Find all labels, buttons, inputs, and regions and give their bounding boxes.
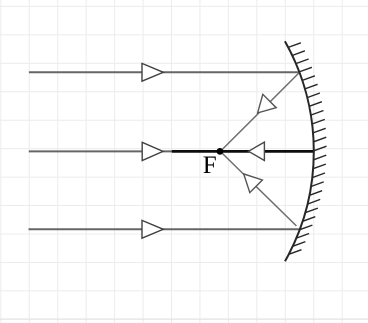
arrowhead on incident ray 2	[142, 142, 163, 160]
mirror hatching (back of mirror)	[288, 43, 326, 255]
arrowhead on upper reflected ray (pointing down-left toward F)	[258, 94, 277, 113]
arrowhead on incident ray 3	[142, 220, 163, 238]
incident ray 2 (middle ray along axis)	[29, 150, 220, 152]
principal axis / reflected axial ray (black)	[172, 150, 314, 153]
reflected ray upper (from mirror top to focal point F)	[220, 73, 299, 152]
concave mirror arc	[285, 41, 314, 261]
incident ray 3 (bottom parallel ray)	[29, 228, 300, 230]
svg-text:F: F	[203, 152, 217, 179]
arrowhead on incident ray 1	[142, 63, 163, 81]
arrowhead on reflected axial ray (pointing left toward F)	[249, 142, 265, 160]
arrowhead on lower reflected ray (pointing up-left toward F)	[244, 174, 263, 193]
reflected ray lower (from mirror bottom to focal point F)	[220, 151, 296, 226]
focal point dot	[217, 148, 224, 155]
incident ray 1 (top parallel ray)	[29, 71, 300, 73]
